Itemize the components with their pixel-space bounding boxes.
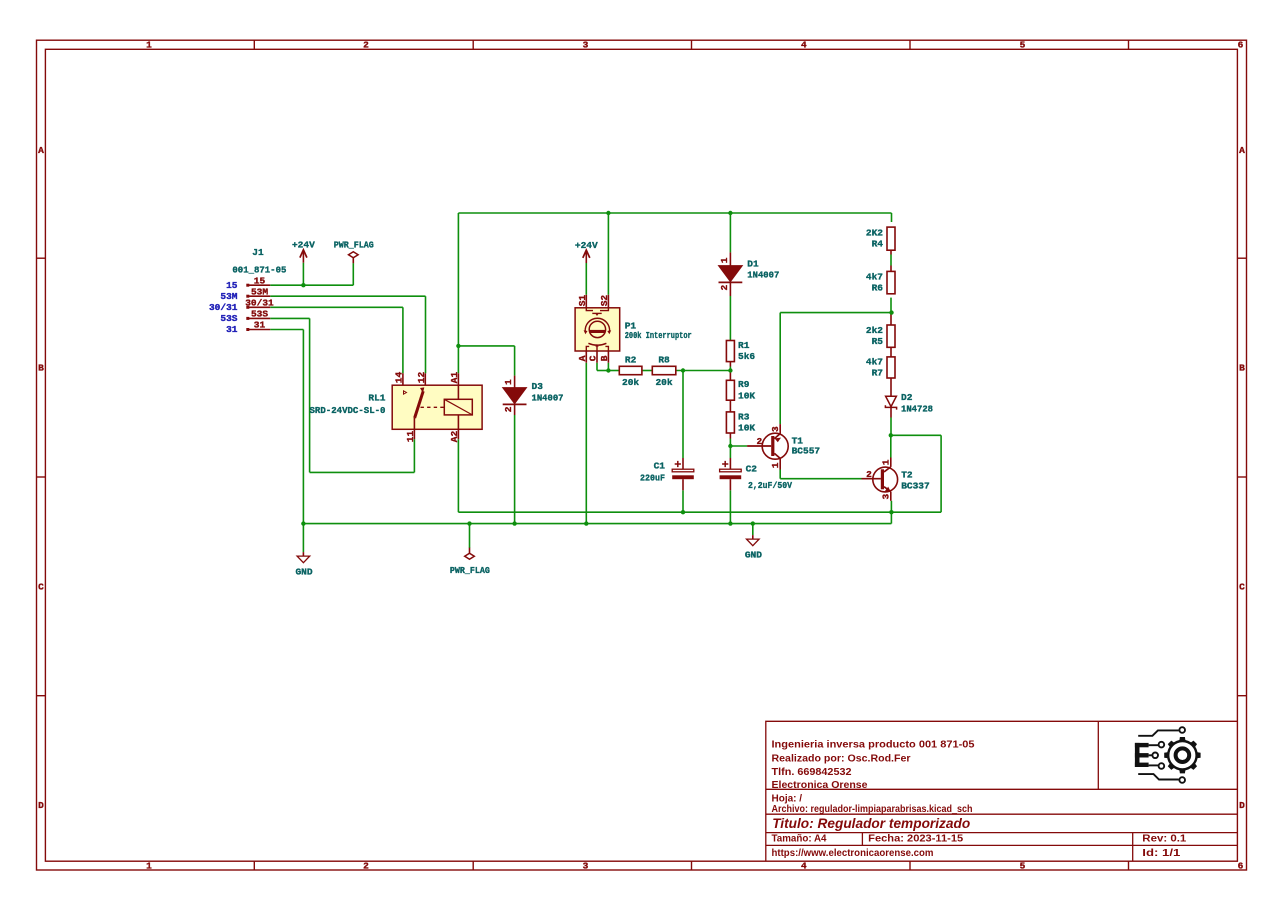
- svg-text:A1: A1: [449, 371, 460, 383]
- svg-text:SRD-24VDC-SL-0: SRD-24VDC-SL-0: [310, 405, 386, 416]
- svg-text:R8: R8: [658, 355, 670, 366]
- svg-text:Hoja: /: Hoja: /: [772, 794, 803, 805]
- svg-text:BC337: BC337: [901, 480, 930, 491]
- svg-text:C: C: [588, 355, 599, 361]
- svg-text:53S: 53S: [220, 313, 237, 324]
- svg-text:1: 1: [881, 459, 892, 465]
- svg-text:2,2uF/50V: 2,2uF/50V: [748, 480, 792, 491]
- svg-text:1: 1: [503, 379, 514, 385]
- svg-text:Id: 1/1: Id: 1/1: [1142, 848, 1181, 859]
- svg-text:1: 1: [770, 462, 781, 468]
- svg-text:B: B: [38, 363, 44, 374]
- svg-text:2: 2: [503, 406, 514, 412]
- svg-text:C2: C2: [746, 464, 758, 475]
- svg-text:Titulo: Regulador temporizado: Titulo: Regulador temporizado: [772, 815, 970, 831]
- svg-text:J1: J1: [252, 247, 264, 258]
- svg-text:Rev: 0.1: Rev: 0.1: [1142, 834, 1186, 845]
- svg-text:R6: R6: [872, 283, 884, 294]
- svg-text:C: C: [1239, 581, 1245, 592]
- svg-text:Ingenieria inversa producto 00: Ingenieria inversa producto 001 871-05: [772, 739, 975, 750]
- svg-text:B: B: [599, 355, 610, 361]
- svg-text:2: 2: [757, 436, 763, 447]
- svg-text:1N4007: 1N4007: [532, 393, 564, 404]
- svg-text:4: 4: [801, 39, 807, 50]
- svg-text:R7: R7: [872, 367, 884, 378]
- svg-text:220uF: 220uF: [640, 472, 665, 483]
- svg-text:15: 15: [254, 275, 266, 286]
- svg-text:Electronica Orense: Electronica Orense: [772, 780, 868, 791]
- svg-text:6: 6: [1238, 39, 1244, 50]
- svg-text:14: 14: [393, 371, 404, 383]
- svg-text:+24V: +24V: [575, 240, 598, 251]
- svg-text:A: A: [1239, 145, 1245, 156]
- svg-text:20k: 20k: [622, 377, 639, 388]
- svg-text:GND: GND: [745, 549, 762, 560]
- svg-text:D3: D3: [532, 381, 544, 392]
- svg-text:3: 3: [583, 39, 589, 50]
- svg-text:5: 5: [1020, 39, 1026, 50]
- svg-text:2: 2: [363, 860, 369, 871]
- svg-text:D1: D1: [747, 258, 759, 269]
- svg-text:R1: R1: [738, 340, 750, 351]
- svg-text:3: 3: [881, 494, 892, 500]
- svg-text:+24V: +24V: [292, 240, 315, 251]
- svg-text:30/31: 30/31: [209, 302, 238, 313]
- svg-text:R4: R4: [872, 239, 884, 250]
- svg-text:1: 1: [719, 257, 730, 263]
- svg-text:2K2: 2K2: [866, 227, 883, 238]
- svg-text:4k7: 4k7: [866, 356, 883, 367]
- svg-text:2k2: 2k2: [866, 325, 883, 336]
- svg-text:1: 1: [146, 39, 152, 50]
- svg-text:53M: 53M: [251, 286, 268, 297]
- svg-text:A: A: [577, 355, 588, 361]
- svg-text:200k Interruptor: 200k Interruptor: [625, 330, 692, 341]
- svg-text:3: 3: [583, 860, 589, 871]
- svg-text:2: 2: [719, 285, 730, 291]
- svg-text:30/31: 30/31: [245, 298, 274, 309]
- svg-text:PWR_FLAG: PWR_FLAG: [450, 565, 490, 576]
- svg-text:53M: 53M: [220, 291, 237, 302]
- svg-text:R3: R3: [738, 411, 750, 422]
- svg-text:R5: R5: [872, 336, 884, 347]
- svg-text:C: C: [38, 581, 44, 592]
- svg-text:D: D: [1239, 800, 1245, 811]
- svg-text:Fecha: 2023-11-15: Fecha: 2023-11-15: [868, 834, 963, 845]
- svg-text:2: 2: [363, 39, 369, 50]
- svg-text:3: 3: [770, 426, 781, 432]
- svg-text:31: 31: [254, 320, 266, 331]
- svg-text:B: B: [1239, 363, 1245, 374]
- svg-text:5: 5: [1020, 860, 1026, 871]
- svg-text:GND: GND: [295, 566, 312, 577]
- svg-text:https://www.electronicaorense.: https://www.electronicaorense.com: [772, 848, 934, 859]
- svg-text:T2: T2: [901, 470, 913, 481]
- svg-text:PWR_FLAG: PWR_FLAG: [334, 240, 374, 251]
- svg-text:C1: C1: [654, 461, 666, 472]
- svg-text:Tamaño: A4: Tamaño: A4: [772, 834, 827, 845]
- svg-text:10K: 10K: [738, 422, 755, 433]
- svg-text:BC557: BC557: [792, 446, 821, 457]
- svg-text:Realizado por: Osc.Rod.Fer: Realizado por: Osc.Rod.Fer: [772, 753, 911, 764]
- svg-text:4k7: 4k7: [866, 271, 883, 282]
- svg-text:1N4007: 1N4007: [747, 270, 779, 281]
- svg-text:1: 1: [146, 860, 152, 871]
- svg-text:2: 2: [866, 469, 872, 480]
- svg-text:Archivo: regulador-limpiaparab: Archivo: regulador-limpiaparabrisas.kica…: [772, 804, 973, 815]
- svg-text:31: 31: [226, 324, 238, 335]
- svg-text:R9: R9: [738, 379, 750, 390]
- svg-text:S1: S1: [577, 295, 588, 307]
- svg-text:R2: R2: [625, 355, 637, 366]
- svg-text:11: 11: [405, 431, 416, 443]
- svg-text:4: 4: [801, 860, 807, 871]
- svg-text:D2: D2: [901, 392, 913, 403]
- svg-text:5k6: 5k6: [738, 351, 755, 362]
- svg-text:RL1: RL1: [368, 392, 385, 403]
- svg-text:10K: 10K: [738, 390, 755, 401]
- svg-text:53S: 53S: [251, 309, 268, 320]
- svg-text:6: 6: [1238, 860, 1244, 871]
- svg-text:15: 15: [226, 280, 238, 291]
- svg-text:001_871-05: 001_871-05: [232, 265, 286, 276]
- svg-text:S2: S2: [599, 295, 610, 307]
- svg-text:Tlfn. 669842532: Tlfn. 669842532: [772, 767, 852, 778]
- svg-text:A2: A2: [449, 431, 460, 443]
- svg-text:1N4728: 1N4728: [901, 404, 933, 415]
- svg-text:A: A: [38, 145, 44, 156]
- svg-text:12: 12: [416, 371, 427, 383]
- svg-text:20k: 20k: [655, 377, 672, 388]
- svg-text:D: D: [38, 800, 44, 811]
